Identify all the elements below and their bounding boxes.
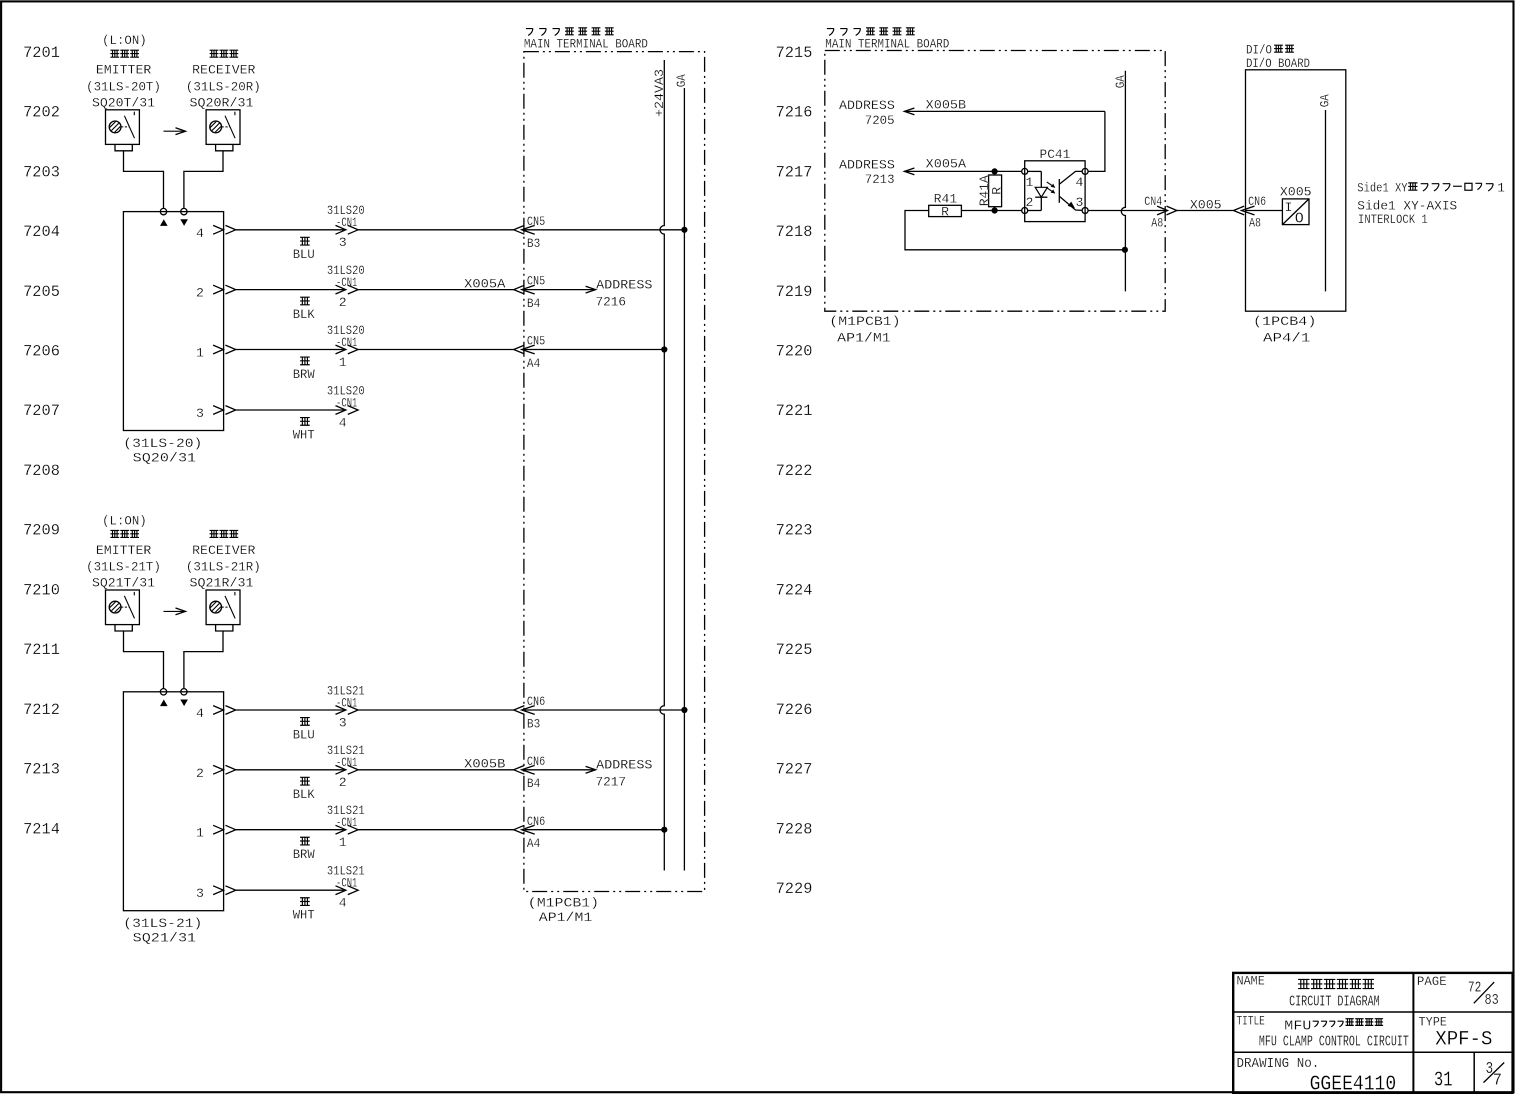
svg-text:Side1 XY: Side1 XY [1357, 180, 1407, 195]
label (31LS-20) SQ20/31 [123, 436, 202, 466]
svg-text:ADDRESS: ADDRESS [839, 98, 895, 113]
svg-text:7216: 7216 [596, 295, 627, 310]
svg-text:(31LS-21R): (31LS-21R) [186, 560, 261, 575]
left row-number column 7201-7214 [23, 44, 60, 838]
I/O port symbol X005 [1282, 199, 1309, 228]
emitter sensor SQ21T/31 [106, 590, 140, 631]
optocoupler PC41 [1022, 147, 1088, 221]
switch box 31LS-21 [123, 692, 223, 911]
svg-text:NAME: NAME [1237, 974, 1265, 989]
wire A4 to +24VA3 rail [524, 349, 664, 351]
svg-text:(31LS-21T): (31LS-21T) [86, 560, 161, 575]
phototransistor of PC41 [1059, 171, 1082, 210]
connector CN5 chevrons [514, 345, 535, 354]
svg-text:1: 1 [196, 826, 204, 841]
svg-text:1: 1 [1026, 175, 1034, 190]
label main terminal board kanji (right) [827, 28, 915, 36]
svg-text:7211: 7211 [23, 641, 60, 659]
wire pin 1 to connector 31LS21-CN1 [236, 829, 346, 831]
power rail +24VA3 [660, 60, 664, 871]
svg-text:3: 3 [196, 886, 204, 901]
label CN5 pin [527, 214, 545, 251]
svg-text:(M1PCB1): (M1PCB1) [528, 896, 599, 911]
svg-text:7228: 7228 [776, 820, 813, 838]
label CN4 / A8 [1144, 194, 1163, 231]
connector chevrons at box pin 4 [213, 706, 236, 715]
svg-text:CN6: CN6 [527, 754, 545, 769]
wire colour kanji [300, 837, 310, 845]
svg-text:7201: 7201 [23, 44, 60, 62]
svg-text:2: 2 [196, 286, 204, 301]
svg-text:(31LS-21): (31LS-21) [123, 916, 202, 931]
svg-text:RECEIVER: RECEIVER [192, 543, 255, 558]
svg-text:A8: A8 [1151, 216, 1163, 231]
title block frame [1233, 973, 1512, 1093]
svg-text:1: 1 [339, 835, 347, 850]
label ADDRESS [596, 758, 653, 790]
svg-text:7219: 7219 [776, 283, 813, 301]
svg-text:+24VA3: +24VA3 [652, 69, 667, 117]
svg-text:MAIN TERMINAL BOARD: MAIN TERMINAL BOARD [524, 37, 648, 52]
marker triangle down [180, 700, 188, 707]
svg-text:7225: 7225 [776, 641, 813, 659]
title block sheet 3/7 [1484, 1059, 1505, 1090]
label ADDRESS 7213 [839, 157, 895, 187]
svg-text:TYPE: TYPE [1419, 1014, 1448, 1029]
label CN6 pin [527, 814, 545, 851]
connector 31LS21-CN1 pin 1 [327, 803, 365, 850]
connector CN5 chevrons [514, 285, 535, 294]
svg-text:SQ21/31: SQ21/31 [133, 931, 196, 946]
receiver sensor SQ21R/31 [206, 590, 240, 631]
connector CN5 chevrons [514, 225, 535, 234]
svg-text:AP4/1: AP4/1 [1263, 330, 1310, 345]
svg-text:SQ20/31: SQ20/31 [133, 451, 196, 466]
terminal circle T [160, 208, 166, 214]
svg-text:7223: 7223 [776, 522, 813, 540]
marker triangle up [160, 219, 168, 226]
title block TITLE cell [1237, 1013, 1409, 1050]
wire receiver to box terminal [184, 631, 223, 689]
svg-text:2: 2 [339, 775, 347, 790]
main terminal board M1PCB1 boundary (left) [524, 52, 705, 892]
svg-text:1: 1 [1497, 180, 1505, 195]
junction dot on +24VA3 rail [661, 827, 667, 833]
svg-text:BLU: BLU [293, 727, 315, 742]
switch box 31LS-20 [123, 212, 223, 431]
wire pin 4 to connector 31LS20-CN1 [236, 229, 346, 231]
connector 31LS20-CN1 pin 3 [327, 203, 365, 250]
svg-text:MFU: MFU [1284, 1018, 1311, 1034]
svg-text:7213: 7213 [865, 172, 895, 187]
junction dot on GA rail [681, 227, 687, 233]
wire B3 to GA rail [524, 709, 684, 711]
receiver sensor SQ20R/31 [206, 110, 240, 151]
svg-text:1: 1 [339, 355, 347, 370]
svg-text:BRW: BRW [293, 367, 315, 382]
svg-text:4: 4 [339, 415, 347, 430]
label CN5 pin [527, 334, 545, 371]
svg-text:(M1PCB1): (M1PCB1) [829, 314, 900, 329]
svg-text:7224: 7224 [776, 581, 813, 599]
svg-text:R: R [941, 204, 949, 219]
wire 31LS21-CN1 to CN6 [358, 829, 514, 831]
svg-text:7212: 7212 [23, 701, 60, 719]
svg-text:B3: B3 [527, 716, 540, 731]
connector chevrons at box pin 1 [213, 345, 236, 354]
svg-text:GA: GA [674, 74, 689, 87]
svg-text:SQ20T/31: SQ20T/31 [92, 95, 155, 110]
label (1PCB4) AP4/1 [1253, 314, 1316, 346]
connector 31LS20-CN1 pin 4 [327, 383, 365, 430]
svg-text:4: 4 [196, 706, 204, 721]
junction dot R41A / pin2 wire [992, 207, 998, 213]
label receiver kanji [210, 530, 239, 537]
svg-text:7217: 7217 [776, 163, 813, 181]
svg-text:X005A: X005A [926, 157, 966, 172]
svg-text:7207: 7207 [23, 402, 60, 420]
light beam arrow [164, 608, 186, 615]
title block TYPE cell XPF-S [1419, 1014, 1493, 1051]
svg-text:CN4: CN4 [1144, 194, 1162, 209]
connector 31LS21-CN1 pin 3 [327, 683, 365, 730]
svg-text:3: 3 [339, 715, 347, 730]
label CN6 pin [527, 754, 545, 791]
svg-text:7206: 7206 [23, 343, 60, 361]
terminal circle R [181, 208, 187, 214]
ground rail GA (DI/O board) [1325, 110, 1327, 291]
wire pin 3 to connector 31LS21-CN1 [236, 889, 346, 891]
LED of PC41 [1028, 171, 1048, 210]
svg-text:A4: A4 [527, 836, 540, 851]
annotation Side1 XY-axis interlock 1 [1357, 180, 1505, 227]
label RECEIVER (31LS-21R) SQ21R/31 [186, 543, 261, 591]
svg-text:4: 4 [1076, 175, 1084, 190]
svg-text:7221: 7221 [776, 402, 813, 420]
svg-text:(31LS-20T): (31LS-20T) [86, 80, 161, 95]
svg-text:7205: 7205 [23, 283, 60, 301]
wire CN6 to I/O port X005 [1246, 210, 1282, 212]
svg-text:B3: B3 [527, 236, 540, 251]
svg-text:DI/O BOARD: DI/O BOARD [1246, 56, 1310, 71]
connector 31LS20-CN1 pin 2 [327, 263, 365, 310]
svg-text:WHT: WHT [293, 427, 315, 442]
wire colour kanji [300, 718, 310, 726]
svg-text:PAGE: PAGE [1417, 974, 1447, 989]
ground rail GA (left board) [683, 88, 685, 871]
svg-text:7202: 7202 [23, 104, 60, 122]
junction dot on GA (right board) [1122, 247, 1128, 253]
svg-text:MAIN TERMINAL BOARD: MAIN TERMINAL BOARD [825, 37, 949, 52]
svg-text:CN5: CN5 [527, 274, 545, 289]
svg-text:CN5: CN5 [527, 214, 545, 229]
svg-text:31: 31 [1434, 1069, 1453, 1092]
label EMITTER (31LS-21T) SQ21T/31 [86, 543, 161, 591]
wire receiver to box terminal [184, 151, 223, 209]
connector 31LS21-CN1 pin 2 [327, 743, 365, 790]
resistor R41A [989, 171, 1002, 210]
connector chevrons at box pin 4 [213, 225, 236, 234]
svg-text:ADDRESS: ADDRESS [839, 157, 895, 172]
connector CN6 chevrons [514, 706, 535, 715]
svg-text:7204: 7204 [23, 223, 60, 241]
svg-text:X005A: X005A [464, 276, 505, 291]
svg-text:7205: 7205 [865, 113, 895, 128]
wire colour kanji [300, 898, 310, 906]
svg-text:X005B: X005B [926, 97, 966, 112]
svg-text:7229: 7229 [776, 880, 813, 898]
svg-text:GGEE4110: GGEE4110 [1310, 1072, 1397, 1094]
wire A4 to +24VA3 rail [524, 829, 664, 831]
wire emitter to box terminal [124, 151, 164, 209]
svg-text:CN6: CN6 [1248, 194, 1266, 209]
svg-text:7213: 7213 [23, 761, 60, 779]
wire colour kanji [300, 357, 310, 365]
label EMITTER (31LS-20T) SQ20T/31 [86, 63, 161, 111]
resistor R41 [929, 205, 962, 216]
svg-text:A8: A8 [1249, 216, 1261, 231]
label (M1PCB1) AP1/M1 (left board) [528, 896, 599, 925]
wire 31LS21-CN1 to CN6 [358, 769, 514, 771]
svg-text:7220: 7220 [776, 343, 813, 361]
wire colour kanji [300, 297, 310, 305]
label emitter kanji [110, 530, 139, 537]
wire pin 1 to connector 31LS20-CN1 [236, 349, 346, 351]
svg-text:(31LS-20): (31LS-20) [123, 436, 202, 451]
svg-text:SQ20R/31: SQ20R/31 [190, 95, 254, 110]
svg-text:AP1/M1: AP1/M1 [837, 330, 891, 345]
label DI/O board kanji [1246, 43, 1294, 58]
label CN6 pin [527, 694, 545, 731]
svg-text:BRW: BRW [293, 847, 315, 862]
junction dot on +24VA3 rail [661, 346, 667, 352]
net X005 wire between boards [1177, 210, 1234, 212]
connector chevrons at box pin 3 [213, 406, 236, 415]
svg-text:O: O [1295, 211, 1304, 228]
label receiver kanji [210, 50, 239, 57]
svg-text:EMITTER: EMITTER [96, 63, 152, 78]
svg-text:B4: B4 [527, 296, 540, 311]
connector chevrons at box pin 2 [213, 285, 236, 294]
svg-text:ADDRESS: ADDRESS [596, 277, 652, 292]
label main terminal board kanji (left) [526, 28, 614, 36]
svg-text:(L:ON): (L:ON) [102, 33, 147, 48]
label (31LS-21) SQ21/31 [123, 916, 202, 946]
main terminal board M1PCB1 boundary (right) [825, 51, 1165, 312]
label (M1PCB1) AP1/M1 (right board) [829, 314, 900, 346]
connector CN4 chevrons [1157, 206, 1177, 215]
svg-text:CIRCUIT DIAGRAM: CIRCUIT DIAGRAM [1289, 994, 1380, 1011]
marker triangle up [160, 700, 168, 707]
emitter sensor SQ20T/31 [106, 110, 140, 151]
svg-text:2: 2 [1026, 195, 1034, 210]
svg-text:7208: 7208 [23, 462, 60, 480]
wire 31LS20-CN1 to CN5 [358, 229, 514, 231]
wire colour kanji [300, 418, 310, 426]
light beam arrow [164, 128, 186, 135]
connector chevrons at box pin 1 [213, 825, 236, 834]
svg-text:3: 3 [1076, 195, 1084, 210]
wire pin 3 of PC41 to CN4 [1088, 210, 1167, 212]
svg-text:4: 4 [196, 226, 204, 241]
wire R41 left to GA return [905, 211, 1125, 250]
wire colour kanji [300, 777, 310, 785]
title block DRAWING No. cell [1237, 1056, 1397, 1094]
svg-text:GA: GA [1113, 75, 1128, 88]
svg-text:7216: 7216 [776, 104, 813, 122]
svg-text:7227: 7227 [776, 761, 813, 779]
wire emitter to box terminal [124, 631, 164, 689]
light arrows of PC41 [1047, 182, 1055, 193]
wire pin 4 to connector 31LS21-CN1 [236, 709, 346, 711]
connector CN6 chevrons [514, 765, 535, 774]
connector chevrons at box pin 3 [213, 886, 236, 895]
wire B3 to GA rail [524, 229, 684, 231]
svg-text:WHT: WHT [293, 908, 315, 923]
svg-text:SQ21R/31: SQ21R/31 [190, 576, 254, 591]
svg-text:GA: GA [1317, 94, 1332, 107]
svg-text:7217: 7217 [596, 775, 627, 790]
svg-text:RECEIVER: RECEIVER [192, 63, 255, 78]
wire pin 2 to connector 31LS20-CN1 [236, 289, 346, 291]
svg-text:3: 3 [196, 406, 204, 421]
svg-text:CN5: CN5 [527, 334, 545, 349]
svg-text:DRAWING No.: DRAWING No. [1237, 1056, 1320, 1072]
ground rail GA (right board) [1121, 71, 1125, 292]
junction dot on GA rail [681, 707, 687, 713]
address arrow to 7216 [524, 286, 596, 293]
svg-text:(31LS-20R): (31LS-20R) [186, 80, 261, 95]
svg-text:2: 2 [339, 295, 347, 310]
svg-text:7209: 7209 [23, 522, 60, 540]
wire 31LS20-CN1 to CN5 [358, 349, 514, 351]
wire colour kanji [300, 237, 310, 245]
connector 31LS20-CN1 pin 1 [327, 323, 365, 370]
svg-text:BLK: BLK [293, 307, 315, 322]
svg-text:A4: A4 [527, 356, 540, 371]
svg-text:7: 7 [1493, 1071, 1502, 1090]
svg-text:83: 83 [1485, 992, 1499, 1009]
svg-text:1: 1 [196, 346, 204, 361]
svg-text:TITLE: TITLE [1237, 1013, 1265, 1028]
wire R41 to pin 2 of PC41 [961, 210, 1021, 212]
svg-text:BLK: BLK [293, 787, 315, 802]
label ADDRESS 7205 [839, 98, 895, 128]
svg-text:4: 4 [339, 896, 347, 911]
net X005A wire with arrow to address 7213 [904, 168, 1021, 175]
svg-text:R: R [989, 187, 1004, 195]
terminal circle T [160, 689, 166, 695]
address arrow to 7217 [524, 766, 596, 773]
svg-text:EMITTER: EMITTER [96, 543, 152, 558]
svg-text:3: 3 [339, 235, 347, 250]
svg-text:7203: 7203 [23, 163, 60, 181]
svg-text:PC41: PC41 [1040, 147, 1071, 162]
connector chevrons at box pin 2 [213, 765, 236, 774]
svg-text:7218: 7218 [776, 223, 813, 241]
label ADDRESS [596, 277, 653, 309]
title block PAGE cell 72/83 [1417, 974, 1499, 1009]
svg-text:BLU: BLU [293, 247, 315, 262]
svg-text:CN6: CN6 [527, 694, 545, 709]
label emitter kanji [110, 50, 139, 57]
svg-text:7215: 7215 [776, 44, 813, 62]
label CN6 / A8 (DI/O) [1248, 194, 1266, 231]
wire pin 2 to connector 31LS21-CN1 [236, 769, 346, 771]
marker triangle down [180, 219, 188, 226]
svg-text:(1PCB4): (1PCB4) [1253, 314, 1316, 329]
DI/O board 1PCB4 boundary [1246, 70, 1346, 311]
connector CN6 chevrons (DI/O) [1234, 206, 1255, 215]
title block NAME cell [1237, 974, 1380, 1011]
svg-text:2: 2 [196, 766, 204, 781]
connector 31LS21-CN1 pin 4 [327, 864, 365, 911]
svg-text:X005: X005 [1280, 185, 1312, 200]
svg-text:INTERLOCK 1: INTERLOCK 1 [1358, 212, 1428, 227]
wire 31LS20-CN1 to CN5 [358, 289, 514, 291]
label RECEIVER (31LS-20R) SQ20R/31 [186, 63, 261, 111]
svg-text:(L:ON): (L:ON) [102, 513, 147, 528]
wire 31LS21-CN1 to CN6 [358, 709, 514, 711]
svg-text:I: I [1284, 200, 1292, 215]
svg-text:CN6: CN6 [527, 814, 545, 829]
svg-text:AP1/M1: AP1/M1 [539, 910, 593, 925]
wire pin 3 to connector 31LS20-CN1 [236, 409, 346, 411]
svg-text:7210: 7210 [23, 581, 60, 599]
svg-text:72: 72 [1468, 980, 1482, 997]
svg-text:7214: 7214 [23, 820, 60, 838]
svg-text:MFU CLAMP CONTROL CIRCUIT: MFU CLAMP CONTROL CIRCUIT [1259, 1034, 1409, 1051]
svg-text:7222: 7222 [776, 462, 813, 480]
svg-text:X005B: X005B [464, 757, 505, 772]
net X005B wire with arrow to address 7205 [904, 108, 1105, 171]
right row-number column 7215-7229 [776, 44, 813, 898]
svg-text:7226: 7226 [776, 701, 813, 719]
label CN5 pin [527, 274, 545, 311]
terminal circle R [181, 689, 187, 695]
svg-text:B4: B4 [527, 776, 540, 791]
connector CN6 chevrons [514, 825, 535, 834]
svg-text:XPF-S: XPF-S [1435, 1029, 1492, 1052]
svg-text:SQ21T/31: SQ21T/31 [92, 576, 155, 591]
svg-text:X005: X005 [1190, 197, 1222, 212]
svg-text:ADDRESS: ADDRESS [596, 758, 652, 773]
junction dot X005A / R41A [992, 168, 998, 174]
